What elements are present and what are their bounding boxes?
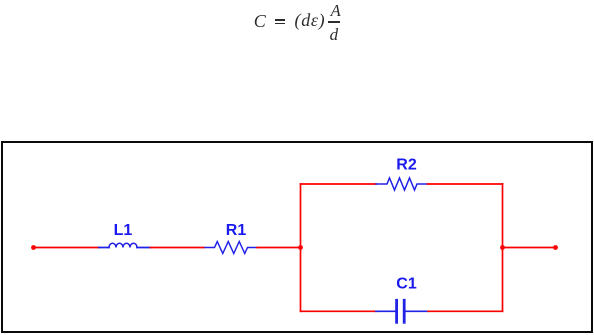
wire: input terminal to L1 bbox=[35, 247, 99, 249]
formula C = (d epsilon) A/d bbox=[252, 0, 352, 42]
wire: R1 to node A bbox=[257, 247, 301, 249]
svg-text:R1: R1 bbox=[226, 222, 247, 239]
node: left input terminal bbox=[31, 245, 36, 250]
wire: node B to output terminal bbox=[503, 247, 556, 249]
wire: top branch left segment bbox=[301, 183, 377, 185]
svg-text:L1: L1 bbox=[114, 222, 133, 239]
inductor L1 bbox=[99, 247, 151, 249]
wire: right branch vertical bbox=[502, 184, 504, 311]
capacitor C1 bbox=[376, 300, 428, 322]
resistor R1 bbox=[205, 242, 257, 254]
node B (right junction) bbox=[500, 245, 505, 250]
svg-text:C1: C1 bbox=[396, 276, 417, 293]
wire: left branch vertical bbox=[300, 184, 302, 311]
wire: bottom branch left segment bbox=[301, 310, 377, 312]
wire: top branch right segment bbox=[428, 183, 503, 185]
svg-text:R2: R2 bbox=[396, 157, 417, 174]
node A (left junction) bbox=[298, 245, 303, 250]
wire: L1 to R1 bbox=[151, 247, 205, 249]
resistor R2 bbox=[376, 178, 428, 190]
wire: bottom branch right segment bbox=[428, 310, 503, 312]
node: right output terminal bbox=[553, 245, 558, 250]
